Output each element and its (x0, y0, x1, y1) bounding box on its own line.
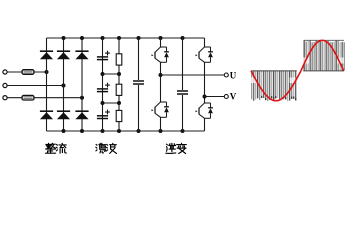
capacitor C4 (133, 81, 144, 84)
capacitor C5 (177, 91, 188, 94)
node: U tap (159, 73, 163, 77)
wire: rectifier leg x=46.5 (46, 38, 48, 131)
wire: output U (161, 74, 225, 76)
resistor R1 (116, 54, 122, 65)
wire: inverter leg 2 (204, 38, 206, 47)
diode D2 (upper) (57, 51, 70, 59)
wire: DC-link cap branch 1 (138, 38, 140, 80)
wire: filter tie 1 (103, 73, 120, 75)
wire: filter capacitor branch (102, 38, 104, 131)
waveform: sine reference (red) (251, 40, 344, 100)
wire: phase T (7, 97, 82, 99)
node: V tap (203, 95, 207, 99)
waveform: axis (251, 70, 297, 72)
node: bottom rail junctions (62, 129, 185, 133)
capacitor C1 (97, 51, 110, 60)
transistor Q3 (199, 47, 205, 62)
node: phase R junction (45, 70, 49, 74)
svg-text:V: V (230, 92, 237, 102)
wire: DC- bottom rail (47, 130, 205, 132)
input terminal T (3, 96, 7, 100)
output terminal U (224, 73, 228, 77)
waveform: top envelope (304, 39, 345, 41)
label text bo (filter) (106, 143, 116, 153)
diode D5 (lower) (57, 111, 70, 119)
node: phase S junction (62, 84, 66, 88)
label text ni (invert) (166, 143, 176, 153)
anti-parallel diode D9 (205, 47, 211, 62)
wire: rectifier leg x=82 (81, 38, 83, 131)
capacitor C2 (97, 83, 110, 92)
diode D1 (upper) (40, 51, 53, 59)
diode D3 (upper) (75, 51, 88, 59)
wire: inverter leg 1 (160, 38, 162, 47)
wire: output V (205, 96, 225, 98)
resistor R2 (116, 84, 122, 95)
wire: phase S (7, 85, 63, 87)
waveform: texture notches (251, 58, 344, 84)
line reactor on phase R (22, 70, 34, 75)
label text liu (rectify) (56, 143, 66, 153)
wire: rectifier leg x=63.5 (63, 38, 65, 131)
label text lv (filter) (96, 143, 106, 153)
output terminal V (224, 95, 228, 99)
node: top rail junctions (62, 36, 185, 40)
anti-parallel diode D10 (205, 103, 211, 118)
input terminal S (3, 83, 7, 87)
transistor Q1 (155, 47, 161, 62)
node: tie junctions (101, 72, 122, 105)
waveform: PWM bars negative half (251, 71, 296, 101)
anti-parallel diode D8 (161, 102, 167, 117)
diode D6 (lower) (75, 111, 88, 119)
wire: filter tie 2 (103, 102, 120, 104)
capacitor C3 (97, 110, 110, 119)
waveform: PWM bars positive half (304, 40, 345, 71)
svg-text:U: U (230, 70, 237, 80)
wire: DC+ top rail (47, 37, 205, 39)
node: phase T junction (80, 96, 84, 100)
anti-parallel diode D7 (161, 47, 167, 62)
transistor Q2 (155, 102, 161, 117)
wire: filter resistor branch (118, 38, 120, 131)
diode D4 (lower) (40, 111, 53, 119)
wire: DC-link cap branch 2 (182, 38, 184, 90)
wire: phase R (7, 71, 46, 73)
input terminal R (3, 70, 7, 74)
label text bian (invert) (177, 143, 187, 153)
label text zheng (rectify) (46, 143, 56, 153)
line reactor on phase T (22, 95, 34, 100)
transistor Q4 (199, 103, 205, 118)
resistor R3 (116, 110, 122, 121)
